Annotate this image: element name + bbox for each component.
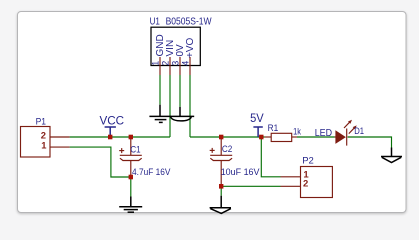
svg-text:2: 2 [161,61,171,66]
wire 5V rail (U1 +VO to R1) [190,136,265,138]
P1 pin 1 [50,146,70,148]
svg-text:10uF 16V: 10uF 16V [221,167,260,178]
P2 pin 2 [281,185,301,187]
pin 4 [189,57,191,75]
ground (cup) under U1 pin3 [170,107,194,121]
LED D1 [335,120,357,146]
svg-text:4.7uF 16V: 4.7uF 16V [132,167,171,178]
capacitor C2 [210,137,233,186]
ground (earth) under U1 pin1 [149,105,170,123]
ground (earth) under C1 [119,197,142,213]
svg-text:VCC: VCC [100,114,125,128]
capacitor C1 [119,137,142,177]
canvas panel [18,12,407,213]
wire C2 bottom to ground [220,186,222,195]
svg-text:1: 1 [151,61,161,66]
wire VCC rail (P1 pin2 to U1 VIN drop) [70,136,170,138]
R1 left lead [265,136,271,138]
svg-text:D1: D1 [354,126,364,137]
D1 anode lead [335,136,337,138]
wire U1 pin4 drop [189,75,191,137]
ground (triangle) under C2 [210,196,231,214]
ground (triangle) under D1 [381,148,402,163]
wire LED cathode to ground corner [348,137,392,148]
connector P1 [21,127,70,158]
svg-text:C2: C2 [222,144,232,155]
svg-text:1: 1 [41,139,46,150]
svg-text:4: 4 [181,61,191,66]
resistor R1 [265,133,297,141]
wire C1 bottom to ground [130,177,132,197]
svg-text:1k: 1k [293,127,301,138]
emission arrow 2 [349,128,355,134]
connector P2 [281,167,333,198]
D1 triangle [335,130,346,144]
svg-text:R1: R1 [268,123,279,134]
svg-text:B0505S-1W: B0505S-1W [166,16,212,27]
junction C1 bottom [129,175,133,180]
wire C2 bottom to P2 pin2 [221,185,280,187]
emission arrow 1 [344,122,350,128]
svg-text:U1: U1 [150,16,160,27]
D1 cathode bar [346,129,348,146]
svg-text:3: 3 [171,61,181,66]
svg-text:2: 2 [303,179,308,190]
wire P1 pin1 to C1 bottom [70,147,131,177]
pin 2 [169,57,171,75]
supply VCC [105,127,116,137]
R1 body [271,133,292,141]
wire U1 pin2 drop [169,75,171,137]
junction C1 top [129,135,133,140]
junction VCC [108,135,112,140]
IC U1 [151,27,201,75]
junction C2 bottom [219,184,223,189]
supply 5V [253,127,262,137]
svg-text:LED: LED [315,128,332,139]
wire U1 pin3 to ground [179,75,181,107]
wire U1 pin1 to ground [159,75,161,105]
R1 right lead [292,136,297,138]
svg-text:+VO: +VO [185,37,196,58]
P2 pin 1 [281,176,301,178]
wire R1 to LED [297,136,335,138]
svg-text:P2: P2 [302,156,314,167]
svg-text:5V: 5V [250,112,264,125]
pin 3 [179,57,181,75]
wire 5V branch to P2 pin1 [261,137,280,177]
junction C2 top [219,135,223,140]
junction 5V [259,135,263,140]
P1 pin 2 [50,136,70,138]
svg-text:P1: P1 [36,117,46,128]
pin 1 [159,57,161,75]
svg-text:C1: C1 [130,144,140,155]
